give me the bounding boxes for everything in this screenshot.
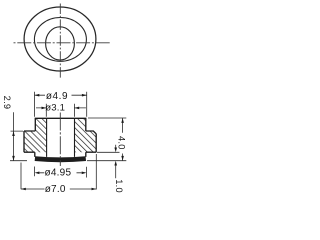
- dim 2.9 extension lines: [10, 131, 27, 161]
- dim d4.9 arrows: [35, 94, 40, 97]
- section outline: [24, 118, 96, 157]
- top view vertical centerline: [59, 4, 61, 80]
- dim 2.9 line: [13, 112, 15, 160]
- dim 4.0 line: [122, 118, 124, 161]
- svg-text:1.0: 1.0: [114, 179, 124, 193]
- dim 1.0 extension line: [97, 151, 120, 153]
- section: left hatched material: [24, 118, 47, 152]
- svg-text:ø4.9: ø4.9: [46, 91, 68, 102]
- dim d4.95 arrows: [35, 172, 40, 175]
- svg-text:2.9: 2.9: [2, 96, 12, 110]
- dim 2.9 arrows: [12, 131, 15, 136]
- dim d4.9 line: [35, 94, 87, 96]
- svg-text:ø3.1: ø3.1: [45, 103, 65, 114]
- dim 1.0 lines (outside arrows): [115, 145, 117, 178]
- top view: bore circle (d3.1): [46, 27, 75, 60]
- top view: outer circle (flange d7.0): [24, 7, 96, 71]
- dim d4.9 extension lines: [35, 92, 87, 117]
- top view horizontal centerline: [14, 42, 111, 44]
- dim d3.1 extension lines: [46, 104, 74, 117]
- svg-text:ø7.0: ø7.0: [45, 184, 66, 195]
- dim 4.0 arrows: [121, 118, 124, 123]
- dim 4.0 extension lines: [87, 118, 126, 161]
- dim d7.0 extension lines: [21, 154, 96, 190]
- dim 1.0 arrows: [114, 148, 117, 153]
- section centerline: [59, 113, 61, 167]
- dim d4.95 line: [39, 172, 81, 174]
- dim d7.0 arrows: [21, 188, 26, 191]
- dim d3.1 arrows: [42, 107, 47, 110]
- dim d7.0 line: [21, 188, 96, 190]
- section: right hatched material: [75, 118, 97, 152]
- svg-text:4.0: 4.0: [117, 136, 127, 150]
- top view: middle circle (body d4.95): [34, 18, 86, 62]
- svg-text:ø4.95: ø4.95: [44, 168, 71, 179]
- section floor band: [35, 159, 86, 160]
- section bore walls: [47, 118, 75, 157]
- dim d3.1 lines (outside): [36, 107, 86, 109]
- dim d4.95 extension lines: [35, 167, 87, 178]
